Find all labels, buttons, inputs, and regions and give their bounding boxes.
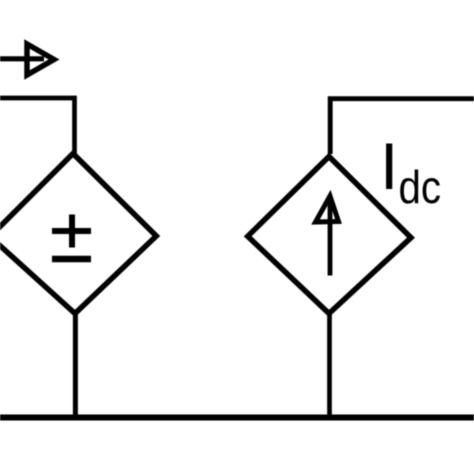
dependent voltage source V1 (diamond) xyxy=(0,154,156,314)
ground rail (bottom bus wire) xyxy=(0,415,474,421)
svg-text:dc: dc xyxy=(399,161,442,213)
wire: top-left current-arrow shaft xyxy=(0,56,44,61)
wire: from left edge to top of voltage source V1 xyxy=(0,98,75,154)
wire: from right edge to top of current source I1 xyxy=(330,99,474,154)
label Idc (current source value) xyxy=(380,129,441,213)
wire: from bottom of I1 to ground rail xyxy=(327,313,332,417)
current direction arrowhead (open triangle) xyxy=(27,44,54,75)
current source arrow inside I1 xyxy=(316,196,339,276)
plus-minus symbol inside V1 xyxy=(52,215,91,260)
dc current source I1 (diamond) xyxy=(248,157,411,314)
wire: from bottom of V1 to ground rail xyxy=(73,313,78,417)
svg-text:I: I xyxy=(380,129,398,203)
